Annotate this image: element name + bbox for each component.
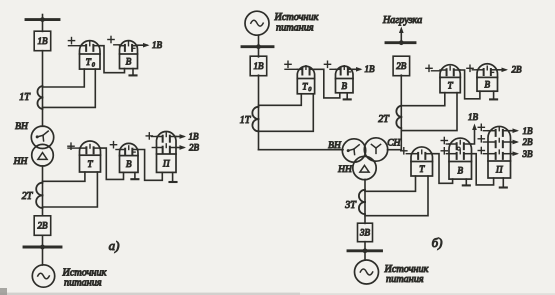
svg-text:1Т: 1Т [240,115,252,126]
svg-text:2Т: 2Т [378,114,390,125]
svg-text:питания: питания [386,274,424,285]
svg-text:ВН: ВН [15,122,29,132]
svg-text:2В: 2В [189,143,200,153]
svg-text:2В: 2В [396,61,407,71]
svg-text:1В: 1В [365,64,376,74]
svg-text:СН: СН [387,138,401,148]
svg-text:0: 0 [308,87,311,93]
svg-text:1В: 1В [38,36,49,46]
svg-text:питания: питания [64,277,102,288]
svg-text:2В: 2В [38,221,49,231]
svg-text:а): а) [109,238,120,253]
svg-text:1В: 1В [152,40,163,50]
svg-text:2В: 2В [512,65,523,75]
svg-text:2В: 2В [523,137,534,147]
svg-text:В: В [458,166,464,176]
svg-text:П: П [162,158,170,168]
svg-text:1Т: 1Т [19,92,31,103]
svg-text:б): б) [432,235,443,250]
svg-text:3В: 3В [359,228,371,238]
svg-text:НН: НН [337,165,353,175]
svg-text:0: 0 [92,62,95,68]
svg-text:Нагрузка: Нагрузка [382,15,422,26]
svg-text:1В: 1В [523,126,534,136]
svg-text:В: В [126,159,132,169]
svg-text:питания: питания [276,22,314,33]
svg-text:2Т: 2Т [22,191,34,202]
svg-text:1В: 1В [254,61,265,71]
svg-text:В: В [485,80,491,90]
svg-text:1В: 1В [468,112,479,122]
svg-text:1В: 1В [189,132,200,142]
svg-text:НН: НН [13,157,29,167]
svg-text:3Т: 3Т [344,200,357,211]
svg-text:П: П [495,165,503,175]
svg-text:ВН: ВН [328,141,342,151]
svg-text:В: В [342,81,348,91]
svg-text:3В: 3В [522,149,534,159]
svg-text:В: В [126,57,132,67]
